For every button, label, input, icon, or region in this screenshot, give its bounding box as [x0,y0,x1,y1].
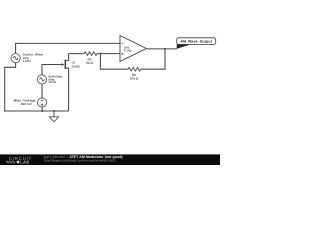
footer bar [0,154,220,165]
svg-text:14 Hz: 14 Hz [48,80,57,84]
svg-text:[2N4393]: [2N4393] [72,65,80,69]
node flag AM_Wave_Output box [177,38,216,45]
ground symbol [53,111,55,117]
wire JFET source lead down to rail [66,68,69,111]
resistor R2 [84,52,97,56]
svg-text:LAB: LAB [20,160,29,165]
junction dot ground at rail [53,110,55,112]
wire Audio-Data top to JFET gate [42,65,63,75]
svg-text:http://www.circuitlab.com/circ: http://www.circuitlab.com/circuit/e5b4dv… [44,159,116,163]
wire Carrier_Wave top to op-amp minus input [16,43,120,53]
junction dot output node [164,48,166,50]
wire drain node to R2 [69,53,85,55]
transistor J1 gate arrow [62,63,65,65]
svg-text:TL082: TL082 [124,49,132,52]
svg-text:100 Ω: 100 Ω [130,77,139,81]
wire op-amp output to flag [146,48,176,50]
svg-text:600 mV: 600 mV [21,102,33,106]
wire Carrier_Wave bottom to ground rail [5,63,69,111]
wire Audio-Data bottom to Bias_Voltage top [41,84,43,98]
junction dot bias at rail [41,110,43,112]
wire Bias_Voltage bottom to rail [41,107,43,111]
junction dot plus-input node [99,53,101,55]
voltage source Carrier_Wave V1 [11,54,20,63]
voltage source Audio-Data V2 [37,75,46,84]
op-amp OA1 triangle [120,36,146,62]
wire JFET drain lead up [66,54,69,61]
svg-text:AM_Wave_Output: AM_Wave_Output [180,40,212,44]
node flag AM_Wave_Output wedge [177,44,191,49]
resistor R3 [128,67,141,71]
voltage source Bias_Voltage V3 [38,98,47,107]
wire R2 to op-amp plus input [97,53,120,55]
svg-text:50 Ω: 50 Ω [86,61,93,65]
svg-text:1 kHz: 1 kHz [23,59,32,63]
wire R3 to output node [141,49,165,69]
wire feedback node down and right to R3 [100,54,128,70]
transistor J1 channel bar [64,60,66,69]
